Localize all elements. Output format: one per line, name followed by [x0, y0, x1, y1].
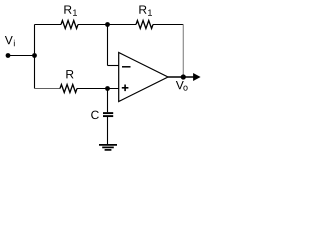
label R1 (feedback)	[139, 5, 146, 13]
wire: Vi terminal to input junction	[8, 55, 35, 57]
node: Vi terminal dot	[6, 53, 11, 58]
wire: R row left segment (junction to resistor R)	[35, 88, 61, 90]
capacitor C top plate	[103, 112, 113, 114]
node B: feedback junction dot on top rail	[105, 22, 110, 27]
label Vo subscript o	[183, 86, 187, 91]
ground symbol bar 1	[99, 144, 117, 146]
wire: inverting input drop from node B	[107, 25, 109, 66]
label R1 (feedback) subscript 1	[148, 10, 152, 16]
node A: input junction dot	[32, 53, 37, 58]
wire: capacitor drop from node C	[107, 89, 109, 113]
label R1 (input) subscript 1	[73, 10, 77, 16]
node C junction dot (non-inverting input / capacitor)	[105, 86, 110, 91]
wire: top rail middle segment	[78, 24, 136, 26]
wire: feedback vertical from top rail to output node	[182, 25, 184, 78]
wire: top rail right segment	[153, 24, 183, 26]
label Vi	[5, 36, 13, 44]
op-amp U1 triangle	[119, 53, 168, 102]
label C	[91, 111, 99, 120]
output arrowhead	[193, 73, 201, 81]
node: output dot Vo	[181, 74, 186, 79]
label R1 (input)	[64, 5, 71, 13]
ground symbol bar 3	[105, 149, 112, 151]
resistor R1 (feedback) zigzag	[136, 21, 153, 29]
resistor R1 (input) zigzag	[61, 21, 78, 29]
wire: capacitor to ground	[107, 117, 109, 145]
capacitor C bottom plate	[103, 115, 113, 117]
wire: R row right segment into non-inverting input	[77, 88, 119, 90]
label Vi subscript i	[13, 40, 16, 47]
wire: inverting input horizontal into op-amp	[108, 65, 120, 67]
wire: top rail left segment	[35, 24, 62, 26]
label R	[66, 70, 73, 78]
wire: op-amp output to arrow	[168, 76, 194, 78]
wire: junction vertical (top rail to R row)	[34, 25, 36, 89]
op-amp minus sign	[122, 66, 131, 68]
op-amp plus sign	[122, 87, 129, 89]
label Vo	[176, 81, 184, 89]
resistor R zigzag	[60, 85, 77, 93]
ground symbol bar 2	[102, 146, 114, 148]
